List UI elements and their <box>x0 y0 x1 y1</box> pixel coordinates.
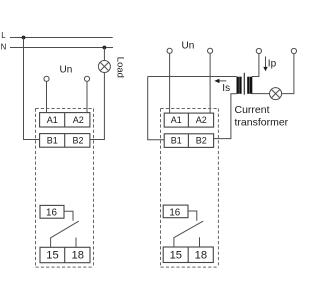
svg-text:A1: A1 <box>47 115 58 125</box>
lamp (load) <box>98 61 110 73</box>
terminal circle left Un a <box>44 76 49 81</box>
svg-text:Un: Un <box>60 65 73 76</box>
wire from lamp to B2 <box>90 73 104 140</box>
wire secondary bottom to B2 <box>214 94 237 139</box>
svg-text:L: L <box>1 31 6 40</box>
svg-text:15: 15 <box>46 250 58 262</box>
wire 18 contact (left) <box>75 238 77 248</box>
wire 18 contact (right) <box>199 237 201 247</box>
terminal block A1 A2 (left) <box>40 113 90 127</box>
svg-text:A1: A1 <box>171 115 182 125</box>
wire 15 pivot (right) <box>173 237 175 247</box>
svg-text:Load: Load <box>115 57 126 78</box>
terminal circle left Un b <box>84 76 89 81</box>
terminal circle CT primary in <box>256 48 261 53</box>
wire right Un b to A2 <box>209 53 211 113</box>
terminal circle right Un b <box>208 48 213 53</box>
wire lamp to right terminal <box>282 54 294 94</box>
lamp (right) <box>270 88 282 100</box>
relay outline left (dashed) <box>36 109 94 268</box>
terminal block A1 A2 (right) <box>164 113 213 127</box>
wire left drop to B1 (right diagram) <box>148 77 165 140</box>
wire primary bottom to lamp <box>252 93 270 95</box>
terminal block B1 B2 (right) <box>164 134 213 148</box>
Is arrow <box>219 80 226 82</box>
svg-text:B2: B2 <box>72 135 83 145</box>
svg-text:15: 15 <box>170 250 182 262</box>
wire N line <box>10 47 113 49</box>
wire 16 lead (left) <box>64 211 73 221</box>
wire 15 pivot (left) <box>50 238 52 248</box>
junction dot on N line <box>103 46 107 50</box>
wire from N dot to lamp <box>103 48 105 61</box>
terminal circle CT primary out <box>291 48 296 53</box>
contact 16 box (left) <box>40 205 64 218</box>
wire primary top to terminal <box>252 54 259 77</box>
relay outline right (dashed) <box>161 109 219 268</box>
svg-text:B1: B1 <box>47 135 58 145</box>
svg-text:Is: Is <box>222 83 230 94</box>
terminal block B1 B2 (left) <box>40 134 90 148</box>
relay blade (right) <box>174 221 203 238</box>
relay blade (left) <box>51 221 79 238</box>
svg-text:A2: A2 <box>73 115 84 125</box>
junction dot on L line <box>22 36 26 40</box>
svg-text:B1: B1 <box>171 136 182 146</box>
current transformer secondary winding <box>237 77 242 94</box>
wire terminal a to A1 <box>46 81 48 112</box>
contact 16 box (right) <box>163 205 188 218</box>
svg-text:N: N <box>1 43 7 52</box>
svg-text:Current: Current <box>235 104 270 116</box>
wire terminal b to A2 <box>86 81 88 112</box>
contact 15/18 box (right) <box>163 247 213 263</box>
Ip arrow <box>265 57 267 68</box>
wire right Un a to A1 <box>169 53 171 113</box>
svg-text:16: 16 <box>46 207 57 218</box>
contact 15/18 box (left) <box>40 247 90 262</box>
wire 16 lead (right) <box>188 211 197 221</box>
svg-text:Un: Un <box>182 41 195 52</box>
svg-text:16: 16 <box>169 207 180 218</box>
terminal circle right Un a <box>167 48 172 53</box>
svg-text:Ip: Ip <box>268 59 277 70</box>
wire from L down to B1 <box>24 38 40 140</box>
wire L line <box>10 37 113 39</box>
svg-text:A2: A2 <box>196 115 207 125</box>
wire Is line to secondary <box>148 76 237 78</box>
svg-text:18: 18 <box>71 250 83 262</box>
current transformer primary winding <box>247 77 252 94</box>
svg-text:transformer: transformer <box>235 117 289 129</box>
svg-text:B2: B2 <box>196 136 207 146</box>
current transformer core <box>243 73 245 95</box>
svg-text:18: 18 <box>195 250 207 262</box>
